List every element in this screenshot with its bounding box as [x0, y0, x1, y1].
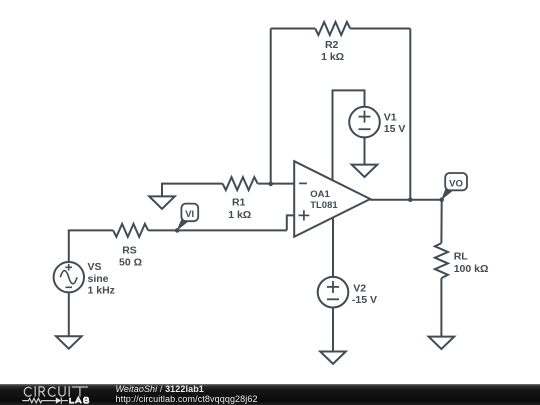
wire: V- pin down to V2 — [332, 217, 334, 277]
svg-text:50 Ω: 50 Ω — [119, 256, 142, 268]
svg-text:100 kΩ: 100 kΩ — [454, 263, 489, 275]
logo resistor-diode glyph — [22, 398, 68, 404]
wire: V2 bottom lead to ground — [332, 308, 334, 352]
ground (under V1) — [352, 165, 378, 177]
wire: VS top lead up to RS wire — [69, 230, 113, 262]
resistor R1 — [223, 177, 258, 190]
svg-text:R1: R1 — [232, 197, 246, 209]
svg-text:TL081: TL081 — [310, 200, 338, 211]
svg-text:1 kΩ: 1 kΩ — [228, 209, 251, 221]
resistor RS — [113, 224, 148, 237]
op-amp OA1 triangle — [294, 161, 370, 237]
credit text — [116, 385, 258, 405]
node: output junction dot (feedback) — [408, 197, 413, 202]
resistor R2 — [315, 22, 350, 35]
svg-text:-15 V: -15 V — [352, 294, 377, 306]
svg-text:VI: VI — [185, 209, 194, 220]
svg-text:RL: RL — [454, 251, 469, 263]
logo word LAB (bold skeleton letters) — [70, 398, 88, 404]
svg-text:OA1: OA1 — [310, 189, 330, 200]
svg-text:V2: V2 — [353, 283, 366, 295]
svg-text:1 kHz: 1 kHz — [88, 285, 115, 297]
svg-text:RS: RS — [122, 245, 137, 257]
voltage source VS (sine) — [54, 262, 84, 292]
footer bar — [0, 384, 540, 405]
svg-text:V1: V1 — [384, 111, 397, 123]
svg-text:R2: R2 — [325, 39, 339, 51]
node: VO junction dot — [439, 197, 444, 202]
wire: ground stub to R1 left — [162, 184, 223, 197]
wire: feedback right vertical (R2 down to output node) — [409, 29, 411, 200]
svg-text:VS: VS — [88, 261, 102, 273]
logo diode arrow — [56, 397, 61, 403]
wire: op-amp output to VO corner — [370, 199, 442, 201]
svg-text:sine: sine — [88, 273, 109, 285]
wire: R2 left lead — [271, 28, 316, 30]
probe VI box — [181, 204, 198, 222]
ground (left, at R1 input) — [149, 196, 175, 208]
logo word CIRCUIT (skeleton letters) — [24, 387, 87, 397]
wire: VS bottom lead to ground — [68, 292, 70, 336]
probe VO pointer wedge — [441, 186, 453, 200]
CircuitLab logo — [0, 384, 110, 405]
wire: feedback left vertical (inverting node up to R2) — [270, 29, 272, 184]
ground (under RL) — [429, 337, 455, 349]
svg-text:1 kΩ: 1 kΩ — [321, 51, 344, 63]
wire: RS to non-inverting step — [148, 229, 287, 231]
wire: step up into non-inverting input — [287, 215, 294, 230]
wire: V+ pin up and over to V1 — [333, 90, 365, 180]
op-amp OA1 minus input sign — [299, 182, 307, 184]
probe VO box — [445, 173, 467, 190]
wire: R1 to inverting input — [258, 183, 295, 185]
op-amp OA1 plus input sign — [299, 210, 310, 220]
wire: RL bottom lead to ground — [440, 278, 442, 337]
voltage source V1 — [349, 107, 380, 138]
node: inverting input junction dot — [268, 182, 273, 187]
wire: R2 right lead — [350, 28, 410, 30]
probe VI pointer wedge — [176, 217, 188, 231]
ground (under VS) — [56, 336, 82, 348]
wire: VO corner down to RL — [440, 200, 442, 243]
svg-text:VO: VO — [449, 178, 463, 189]
wire: V1 bottom lead to ground — [364, 137, 366, 164]
voltage source V2 — [318, 277, 349, 308]
node: VI junction dot — [175, 228, 180, 233]
resistor RL — [435, 243, 448, 278]
svg-text:15 V: 15 V — [384, 123, 406, 135]
ground (under V2) — [320, 352, 346, 364]
